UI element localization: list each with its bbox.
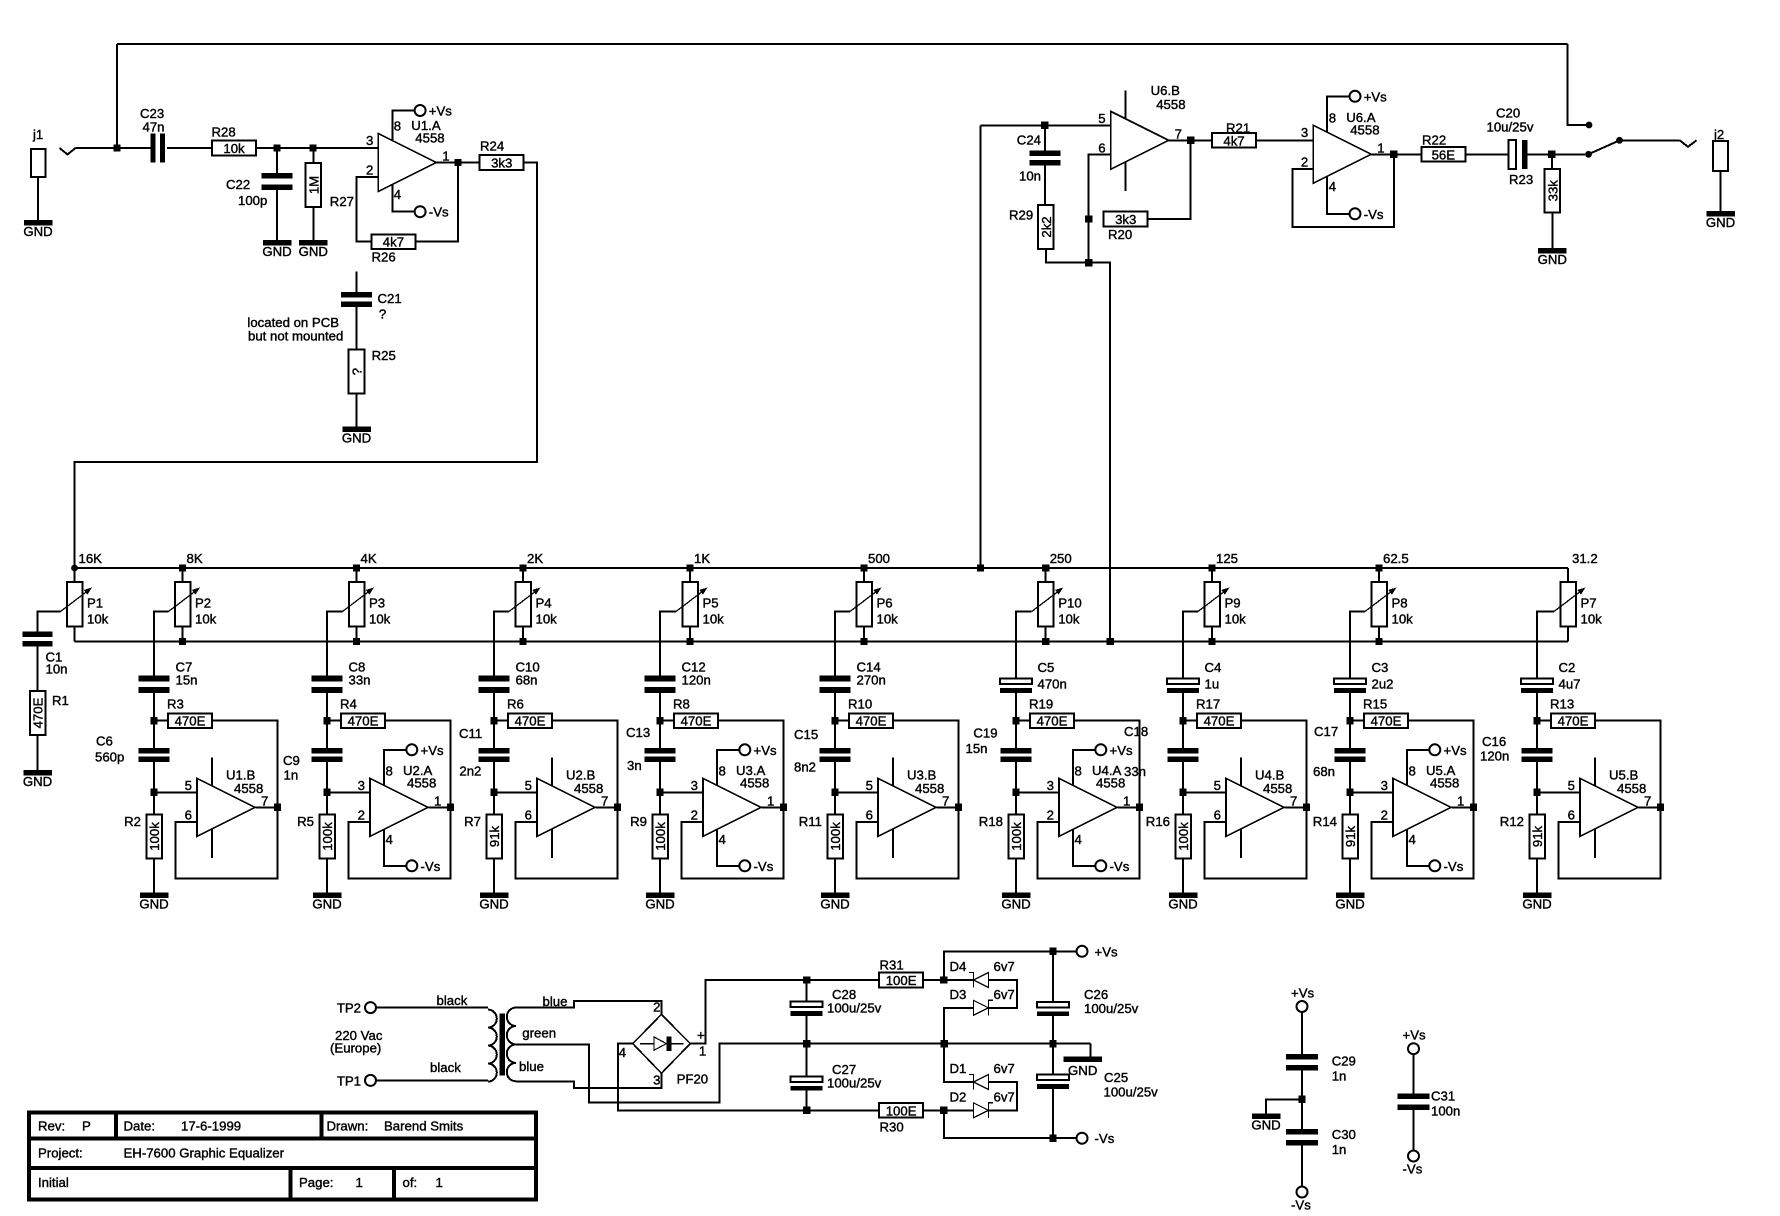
- ground C29 C30: [1251, 1114, 1280, 1133]
- wire switch to j2: [1622, 139, 1680, 141]
- svg-text:5: 5: [1568, 778, 1575, 793]
- wire C23 to R28: [167, 147, 212, 149]
- wire P9 wiper to C4: [1183, 612, 1198, 679]
- svg-text:D4: D4: [950, 959, 967, 974]
- resistor R29 2k2: [1009, 205, 1054, 249]
- svg-text:1: 1: [1377, 140, 1384, 155]
- svg-text:16K: 16K: [79, 551, 103, 566]
- capacitor C12 120n: [645, 660, 711, 694]
- svg-text:-Vs: -Vs: [1095, 1131, 1115, 1146]
- wire C6 top: [153, 721, 155, 748]
- wire C9 to op-amp input: [326, 757, 328, 815]
- bridge rectifier PF20: [619, 1000, 708, 1088]
- label 500 band: [868, 551, 890, 566]
- node C22 junction: [273, 144, 280, 151]
- svg-text:P10: P10: [1058, 596, 1081, 611]
- resistor R18 100k: [979, 814, 1024, 859]
- capacitor C17 68n: [1313, 724, 1366, 779]
- ground j1: [23, 220, 52, 239]
- wire EQ top bus feed: [980, 125, 982, 568]
- wire EQ lower rail: [75, 641, 1569, 643]
- svg-text:91k: 91k: [487, 825, 502, 847]
- wire C19 top: [1015, 721, 1017, 748]
- svg-text:4: 4: [1329, 179, 1336, 194]
- svg-text:1n: 1n: [284, 768, 299, 783]
- wire C27 bottom lead: [806, 1091, 808, 1111]
- wire C15 top: [834, 721, 836, 748]
- node C27 bottom: [803, 1107, 810, 1114]
- op-amp U6.A 4558: [1301, 89, 1387, 222]
- svg-text:GND: GND: [1706, 215, 1735, 230]
- svg-text:1: 1: [356, 1175, 363, 1190]
- potentiometer P5 10k: [676, 582, 724, 627]
- zener diode D1 6v7: [950, 1061, 1015, 1090]
- resistor R31 100E: [879, 958, 923, 989]
- svg-text:+Vs: +Vs: [1291, 985, 1314, 1000]
- note not mounted: [247, 315, 343, 344]
- svg-text:10k: 10k: [1058, 612, 1080, 627]
- svg-text:6: 6: [1568, 808, 1575, 823]
- wire U3.A output: [761, 806, 783, 808]
- svg-text:8: 8: [1329, 110, 1336, 125]
- svg-text:P1: P1: [87, 596, 103, 611]
- svg-text:R2: R2: [124, 814, 141, 829]
- potentiometer P1 10k: [61, 582, 109, 627]
- svg-text:R28: R28: [212, 125, 236, 140]
- svg-text:R23: R23: [1509, 172, 1533, 187]
- node P5 top rail: [686, 564, 693, 571]
- wire R18 to ground: [1015, 859, 1017, 893]
- svg-text:C3: C3: [1372, 660, 1389, 675]
- node P2 bottom rail: [179, 638, 186, 645]
- svg-text:33n: 33n: [349, 673, 371, 688]
- svg-text:1u: 1u: [1205, 677, 1220, 692]
- svg-text:10k: 10k: [877, 612, 899, 627]
- svg-text:R18: R18: [979, 814, 1003, 829]
- svg-text:100k: 100k: [320, 822, 335, 851]
- capacitor C28 100u/25v: [791, 987, 882, 1016]
- wire blue top to bridge: [516, 1001, 661, 1014]
- svg-text:10k: 10k: [369, 612, 391, 627]
- svg-text:of:: of:: [403, 1175, 418, 1190]
- node U4.B output: [1303, 804, 1310, 811]
- svg-text:4558: 4558: [407, 775, 436, 790]
- wire U1.A pin 2 feedback: [357, 177, 379, 242]
- svg-text:blue: blue: [519, 1059, 544, 1074]
- wire P8 top: [1378, 568, 1380, 582]
- op-amp U3.B 4558: [866, 757, 950, 858]
- resistor R17 470E: [1196, 697, 1241, 729]
- ground R7: [479, 893, 508, 912]
- wire C1 to R1: [37, 647, 39, 692]
- svg-text:560p: 560p: [95, 750, 124, 765]
- svg-text:+Vs: +Vs: [1110, 743, 1133, 758]
- wire R6 feedback loop: [516, 721, 618, 879]
- terminal +Vs supply: [1077, 944, 1118, 959]
- ground j2: [1706, 211, 1735, 230]
- svg-text:3: 3: [1047, 778, 1054, 793]
- svg-text:D2: D2: [950, 1089, 967, 1104]
- svg-text:8: 8: [1075, 763, 1082, 778]
- wire top bypass rail: [117, 43, 1568, 45]
- svg-text:6: 6: [866, 808, 873, 823]
- wire C26 bottom lead: [1052, 1016, 1054, 1044]
- wire P6 wiper to C14: [835, 612, 850, 676]
- resistor R11 100k: [799, 814, 843, 859]
- label 220 Vac: [330, 1028, 383, 1056]
- node R23 top: [1548, 151, 1555, 158]
- svg-text:2: 2: [653, 1000, 660, 1015]
- svg-text:15n: 15n: [176, 673, 198, 688]
- svg-text:R14: R14: [1313, 814, 1337, 829]
- svg-text:6v7: 6v7: [994, 1061, 1015, 1076]
- ground R14: [1335, 893, 1364, 912]
- svg-text:black: black: [437, 993, 468, 1008]
- op-amp U5.B 4558: [1568, 757, 1652, 858]
- svg-text:D3: D3: [950, 987, 967, 1002]
- resistor R22 56E: [1421, 132, 1465, 162]
- wire C27 top lead: [806, 1044, 808, 1077]
- potentiometer P10 10k: [1032, 582, 1082, 627]
- wire C21 to R25: [356, 307, 358, 350]
- svg-text:3: 3: [358, 778, 365, 793]
- svg-text:250: 250: [1050, 551, 1072, 566]
- potentiometer P8 10k: [1365, 582, 1413, 627]
- svg-text:P: P: [82, 1119, 91, 1134]
- wire R11 to ground: [834, 859, 836, 893]
- svg-text:R9: R9: [630, 814, 647, 829]
- wire C18 to op-amp input: [1182, 757, 1184, 815]
- potentiometer P7 10k: [1554, 582, 1602, 627]
- wire to R13: [1537, 720, 1551, 722]
- wire 1M top: [312, 148, 314, 163]
- svg-text:91k: 91k: [1343, 825, 1358, 847]
- wire U6.B pin 5 input: [981, 124, 1111, 126]
- capacitor C7 15n: [139, 660, 198, 694]
- wire EQ upper rail: [75, 567, 1569, 569]
- capacitor C22 100p: [226, 173, 293, 208]
- wire input to U5.B: [1537, 791, 1580, 793]
- svg-text:100k: 100k: [147, 822, 162, 851]
- capacitor C16 120n: [1480, 734, 1553, 764]
- wire P2 wiper to C7: [154, 612, 169, 676]
- ground R23: [1538, 248, 1567, 267]
- svg-text:56E: 56E: [1432, 147, 1456, 162]
- svg-text:C16: C16: [1482, 734, 1506, 749]
- svg-text:10k: 10k: [195, 612, 217, 627]
- svg-text:4558: 4558: [415, 131, 444, 146]
- svg-text:5: 5: [1214, 778, 1221, 793]
- wire U6.A pin 2 feedback: [1293, 154, 1394, 227]
- wire P3 bottom: [356, 627, 358, 642]
- wire to R8: [660, 720, 674, 722]
- resistor R27 1M: [306, 163, 322, 207]
- wire R1 to ground: [37, 735, 39, 770]
- wire C7 to R junction: [153, 693, 155, 721]
- node op-amp input U3.A: [656, 789, 663, 796]
- wire U2.A output: [428, 806, 450, 808]
- wire P1 wiper to C1: [38, 612, 61, 632]
- node P8 top rail: [1375, 564, 1382, 571]
- ground R25: [342, 426, 371, 445]
- svg-text:C31: C31: [1431, 1088, 1455, 1103]
- op-amp U4.B 4558: [1214, 757, 1298, 858]
- capacitor C26 100u/25v: [1037, 987, 1139, 1016]
- svg-text:31.2: 31.2: [1572, 551, 1598, 566]
- capacitor C6 560p: [95, 734, 170, 765]
- resistor R7 91k: [464, 814, 502, 859]
- svg-text:Drawn:: Drawn:: [327, 1119, 369, 1134]
- potentiometer P6 10k: [850, 582, 898, 627]
- svg-text:GND: GND: [1538, 252, 1567, 267]
- wire to R15: [1350, 720, 1364, 722]
- svg-text:black: black: [430, 1060, 461, 1075]
- wire C29 to C30: [1301, 1065, 1303, 1129]
- svg-text:100E: 100E: [886, 1103, 917, 1118]
- svg-text:?: ?: [350, 368, 365, 375]
- wire U5.B output: [1638, 806, 1660, 808]
- label R20: [1108, 227, 1132, 242]
- svg-text:100u/25v: 100u/25v: [827, 1076, 882, 1091]
- wire to R19: [1016, 720, 1030, 722]
- wire R13 feedback loop: [1559, 721, 1661, 879]
- wire C21 stub: [356, 271, 358, 292]
- node D2 R30: [940, 1107, 947, 1114]
- wire R4 feedback loop: [349, 721, 451, 879]
- node P2 top rail: [179, 564, 186, 571]
- wire D3 to mid rail: [944, 1008, 973, 1082]
- svg-text:3k3: 3k3: [491, 156, 512, 171]
- capacitor C23 47n: [140, 106, 165, 163]
- svg-text:R8: R8: [673, 697, 690, 712]
- wire R3 feedback loop: [176, 721, 278, 879]
- wire R19 feedback loop: [1038, 721, 1140, 879]
- svg-text:+Vs: +Vs: [754, 743, 777, 758]
- svg-text:Barend Smits: Barend Smits: [384, 1119, 464, 1134]
- label 125 band: [1216, 551, 1238, 566]
- svg-text:6: 6: [1214, 808, 1221, 823]
- svg-text:470E: 470E: [1558, 714, 1589, 729]
- svg-text:R16: R16: [1146, 814, 1170, 829]
- ground C22: [262, 240, 291, 259]
- resistor R28 10k: [212, 125, 257, 157]
- ground R2: [139, 893, 168, 912]
- wire R12 to ground: [1536, 859, 1538, 893]
- wire C14 to R junction: [834, 693, 836, 721]
- svg-text:C17: C17: [1314, 724, 1338, 739]
- svg-text:270n: 270n: [857, 673, 886, 688]
- label green: [522, 1026, 556, 1041]
- svg-text:j2: j2: [1713, 127, 1724, 142]
- resistor R9 100k: [630, 814, 668, 859]
- wire C18 top: [1182, 721, 1184, 748]
- wire C11 to op-amp input: [493, 757, 495, 815]
- svg-text:U6.B: U6.B: [1151, 83, 1181, 98]
- wire C24 to R29: [1044, 165, 1046, 205]
- svg-text:Date:: Date:: [124, 1119, 156, 1134]
- svg-text:100k: 100k: [653, 822, 668, 851]
- svg-text:+Vs: +Vs: [1364, 89, 1387, 104]
- node P3 bottom rail: [353, 638, 360, 645]
- node P6 bottom rail: [860, 638, 867, 645]
- wire to R4: [327, 720, 341, 722]
- node R20 left: [1085, 215, 1092, 222]
- wire C13 top: [659, 721, 661, 748]
- svg-text:4: 4: [1075, 832, 1082, 847]
- svg-text:P9: P9: [1225, 596, 1241, 611]
- svg-text:8n2: 8n2: [794, 760, 816, 775]
- svg-text:R5: R5: [297, 814, 314, 829]
- resistor R1 470E: [30, 691, 69, 735]
- svg-text:C24: C24: [1017, 132, 1041, 147]
- svg-text:3k3: 3k3: [1115, 212, 1136, 227]
- node P9 bottom rail: [1208, 638, 1215, 645]
- svg-text:62.5: 62.5: [1383, 551, 1409, 566]
- svg-text:8: 8: [386, 763, 393, 778]
- wire R20 to U6.B output: [1148, 140, 1191, 219]
- svg-text:33k: 33k: [1545, 180, 1560, 202]
- svg-text:blue: blue: [543, 994, 568, 1009]
- capacitor C13 3n: [626, 725, 676, 773]
- svg-text:4558: 4558: [1617, 781, 1646, 796]
- svg-text:10k: 10k: [536, 612, 558, 627]
- svg-text:R6: R6: [507, 697, 524, 712]
- svg-text:Rev:: Rev:: [38, 1119, 65, 1134]
- svg-text:10k: 10k: [703, 612, 725, 627]
- wire R14 to ground: [1349, 859, 1351, 893]
- label 62.5 band: [1383, 551, 1409, 566]
- wire U6.A output: [1371, 153, 1421, 155]
- label black top: [437, 993, 468, 1008]
- svg-text:100p: 100p: [238, 193, 267, 208]
- wire C28 top lead: [806, 980, 808, 1002]
- op-amp U2.A 4558: [358, 743, 444, 874]
- wire C28 to mid rail: [806, 1016, 808, 1044]
- svg-text:2u2: 2u2: [1372, 677, 1394, 692]
- wire P7 bottom: [1567, 627, 1569, 642]
- svg-text:4558: 4558: [574, 781, 603, 796]
- wire C10 to R junction: [493, 693, 495, 721]
- svg-text:P7: P7: [1581, 596, 1597, 611]
- svg-text:R22: R22: [1422, 132, 1446, 147]
- node C28 top: [803, 976, 810, 983]
- svg-text:1: 1: [699, 1044, 706, 1059]
- svg-text:10k: 10k: [223, 141, 245, 156]
- svg-text:1: 1: [1123, 793, 1130, 808]
- wire TP2 to transformer: [376, 1007, 488, 1009]
- wire U6.B output to R21: [1169, 139, 1212, 141]
- svg-text:C29: C29: [1332, 1053, 1356, 1068]
- wire C31 to -Vs: [1413, 1104, 1415, 1150]
- zener diode D2 6v7: [950, 1089, 1015, 1118]
- capacitor C20 10u/25v: [1487, 106, 1534, 187]
- node U6.A output: [1390, 151, 1397, 158]
- wire P4 bottom: [522, 627, 524, 642]
- svg-text:-Vs: -Vs: [1403, 1162, 1423, 1177]
- node op-amp input U3.B: [831, 789, 838, 796]
- svg-text:R17: R17: [1196, 697, 1220, 712]
- svg-text:8: 8: [394, 119, 401, 134]
- wire P5 wiper to C12: [660, 612, 676, 676]
- svg-text:6v7: 6v7: [994, 987, 1015, 1002]
- wire R5 to ground: [326, 859, 328, 893]
- svg-text:4558: 4558: [1156, 97, 1185, 112]
- svg-text:2: 2: [1047, 808, 1054, 823]
- label 31.2 band: [1572, 551, 1598, 566]
- svg-text:R1: R1: [52, 693, 69, 708]
- capacitor C9 1n: [283, 748, 343, 783]
- node feedback bus: [1085, 259, 1092, 266]
- svg-text:3: 3: [691, 778, 698, 793]
- potentiometer P9 10k: [1198, 582, 1246, 627]
- svg-text:5: 5: [1098, 111, 1105, 126]
- node R19 junction: [1012, 717, 1019, 724]
- resistor R6 470E: [507, 697, 552, 729]
- svg-text:R12: R12: [1500, 814, 1524, 829]
- wire C25 bottom lead: [1052, 1089, 1054, 1138]
- svg-text:C25: C25: [1104, 1070, 1128, 1085]
- wire P2 bottom: [182, 627, 184, 642]
- svg-text:4: 4: [394, 187, 401, 202]
- svg-text:R29: R29: [1009, 207, 1033, 222]
- wire C16 top: [1536, 721, 1538, 748]
- svg-text:GND: GND: [1522, 897, 1551, 912]
- svg-text:C30: C30: [1332, 1127, 1356, 1142]
- node P4 bottom rail: [519, 638, 526, 645]
- svg-text:R20: R20: [1108, 227, 1132, 242]
- wire input to U1.B: [154, 791, 197, 793]
- svg-text:P8: P8: [1392, 596, 1408, 611]
- resistor R23 33k: [1545, 169, 1561, 213]
- wire C11 top: [493, 721, 495, 748]
- svg-text:120n: 120n: [1480, 749, 1509, 764]
- wire U1.B output: [255, 806, 277, 808]
- capacitor C18 33n: [1124, 724, 1199, 779]
- wire U4.B output: [1284, 806, 1306, 808]
- wire input to C23: [76, 147, 153, 149]
- node mid rail C28: [803, 1040, 810, 1047]
- svg-text:470E: 470E: [856, 714, 887, 729]
- wire green center tap: [516, 1044, 807, 1103]
- wire C2 to R junction: [1536, 693, 1538, 721]
- svg-text:470E: 470E: [681, 714, 712, 729]
- node U5.B output: [1657, 804, 1664, 811]
- svg-text:C15: C15: [794, 727, 818, 742]
- svg-text:+Vs: +Vs: [1095, 944, 1118, 959]
- wire R26 to output node: [415, 163, 458, 242]
- wire R8 feedback loop: [682, 721, 784, 879]
- resistor R14 91k: [1313, 814, 1358, 859]
- label R26: [372, 250, 396, 265]
- svg-text:4: 4: [719, 832, 726, 847]
- capacitor C15 8n2: [794, 727, 851, 775]
- svg-text:125: 125: [1216, 551, 1238, 566]
- wire to R6: [494, 720, 508, 722]
- node P8 bottom rail: [1375, 638, 1382, 645]
- node P9 top rail: [1208, 564, 1215, 571]
- svg-text:GND: GND: [262, 244, 291, 259]
- svg-text:P6: P6: [877, 596, 893, 611]
- wire input to U4.A: [1016, 791, 1059, 793]
- wire P9 top: [1211, 568, 1213, 582]
- node mid rail zener: [941, 1040, 948, 1047]
- zener diode D3 6v7: [950, 987, 1015, 1016]
- terminal -Vs supply: [1077, 1131, 1115, 1146]
- svg-text:-Vs: -Vs: [1291, 1198, 1311, 1213]
- svg-text:-Vs: -Vs: [1444, 859, 1464, 874]
- svg-text:R30: R30: [880, 1120, 904, 1135]
- capacitor C11 2n2: [459, 726, 510, 779]
